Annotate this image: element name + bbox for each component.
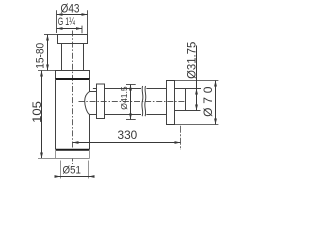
dim 105 top arrow [40,71,43,77]
svg-text:Ø41.5: Ø41.5 [119,86,129,110]
dim Ø31.75 up arrow [195,89,198,95]
pipe break curve right [145,86,146,116]
pipe bottom wall segment 2 [146,114,166,116]
dim Ø51 line [56,176,94,178]
dim Ø43 line [57,14,88,16]
dim 15-80 top arrow [46,35,49,41]
dim G1 1/4 line [57,28,83,30]
dim 15-80 line [47,35,49,71]
pipe top wall segment 1 [105,88,142,90]
dim Ø41.5 bottom arrow [129,114,132,120]
wire pipe horizontal center line [79,101,187,103]
body bold bottom [56,149,90,151]
dim G1 1/4 left arrow [57,27,63,30]
dim 15-80 bottom arrow [46,65,49,71]
dim Ø41.5 top tick [126,84,136,86]
Ø70 top extension [167,80,219,82]
dim 330 right arrow [175,141,181,144]
dim G1 1/4 right tick [81,26,83,34]
dim Ø43 right arrow [82,13,88,16]
dim Ø51 left arrow outside [55,175,61,178]
elbow center line [180,126,182,150]
dim 330 left arrow [73,141,79,144]
svg-text:Ø70: Ø70 [201,86,215,117]
body right wall lower [89,115,91,150]
dim G1 1/4 right arrow [76,27,82,30]
dim Ø51 right arrow outside [89,175,95,178]
body left wall [55,80,57,149]
node body vertical center line [72,31,74,148]
dim 105 bottom arrow [40,153,43,159]
Ø51 left extension [60,161,62,179]
dim 330 line [73,142,181,144]
dim Ø41.5 line [130,85,132,120]
inlet tube right wall [83,44,85,71]
cap bottom line + 105 extension [38,158,90,160]
Ø51 right extension [88,161,90,179]
stub pipe end [185,89,187,111]
svg-text:330: 330 [118,128,138,142]
Ø70 bottom extension [167,124,219,126]
wall flange [167,81,175,125]
svg-text:15-80: 15-80 [35,43,47,69]
dim Ø70 bottom arrow [214,119,217,125]
dim Ø41.5 bottom tick [126,119,136,121]
inlet flange [58,35,88,44]
cap right wall [89,151,91,159]
svg-text:Ø31.75: Ø31.75 [184,41,198,78]
bottle trap dimensional drawing [0,0,257,190]
stub pipe bottom + Ø31.75 bottom extension [175,110,201,112]
cap left wall [55,151,57,159]
pipe bottom wall segment 1 [105,114,142,116]
pipe nut [97,84,105,119]
svg-text:Ø43: Ø43 [61,2,80,16]
pipe top wall segment 2 [146,88,166,90]
dim Ø70 line [215,81,217,125]
dim Ø43 left arrow [57,13,63,16]
inlet tube left wall [61,44,63,71]
pipe break curve left [142,86,143,116]
junction line top outer [93,88,97,90]
svg-text:G 1¼: G 1¼ [58,16,76,28]
ball joint arc [85,92,90,115]
dim Ø31.75 line [196,46,198,111]
svg-text:Ø51: Ø51 [63,164,81,176]
dim 105 line [41,71,43,159]
flange top extension to left for 15-80 [44,34,58,36]
center line below cap [72,159,74,165]
dim Ø43 left extension [56,10,58,33]
body right wall upper [89,80,91,92]
dim Ø70 top arrow [214,81,217,87]
body nut bold bottom [56,78,90,80]
junction line bottom [90,114,97,116]
body top nut band [56,71,90,80]
stub pipe top + Ø31.75 top extension [175,88,202,90]
shared extension line at nut top [38,70,56,72]
dim Ø43 right extension [87,10,89,34]
dim Ø41.5 top arrow [129,85,132,91]
svg-text:105: 105 [30,101,44,123]
junction line top inner [90,91,97,93]
dim Ø31.75 down arrow [195,105,198,111]
